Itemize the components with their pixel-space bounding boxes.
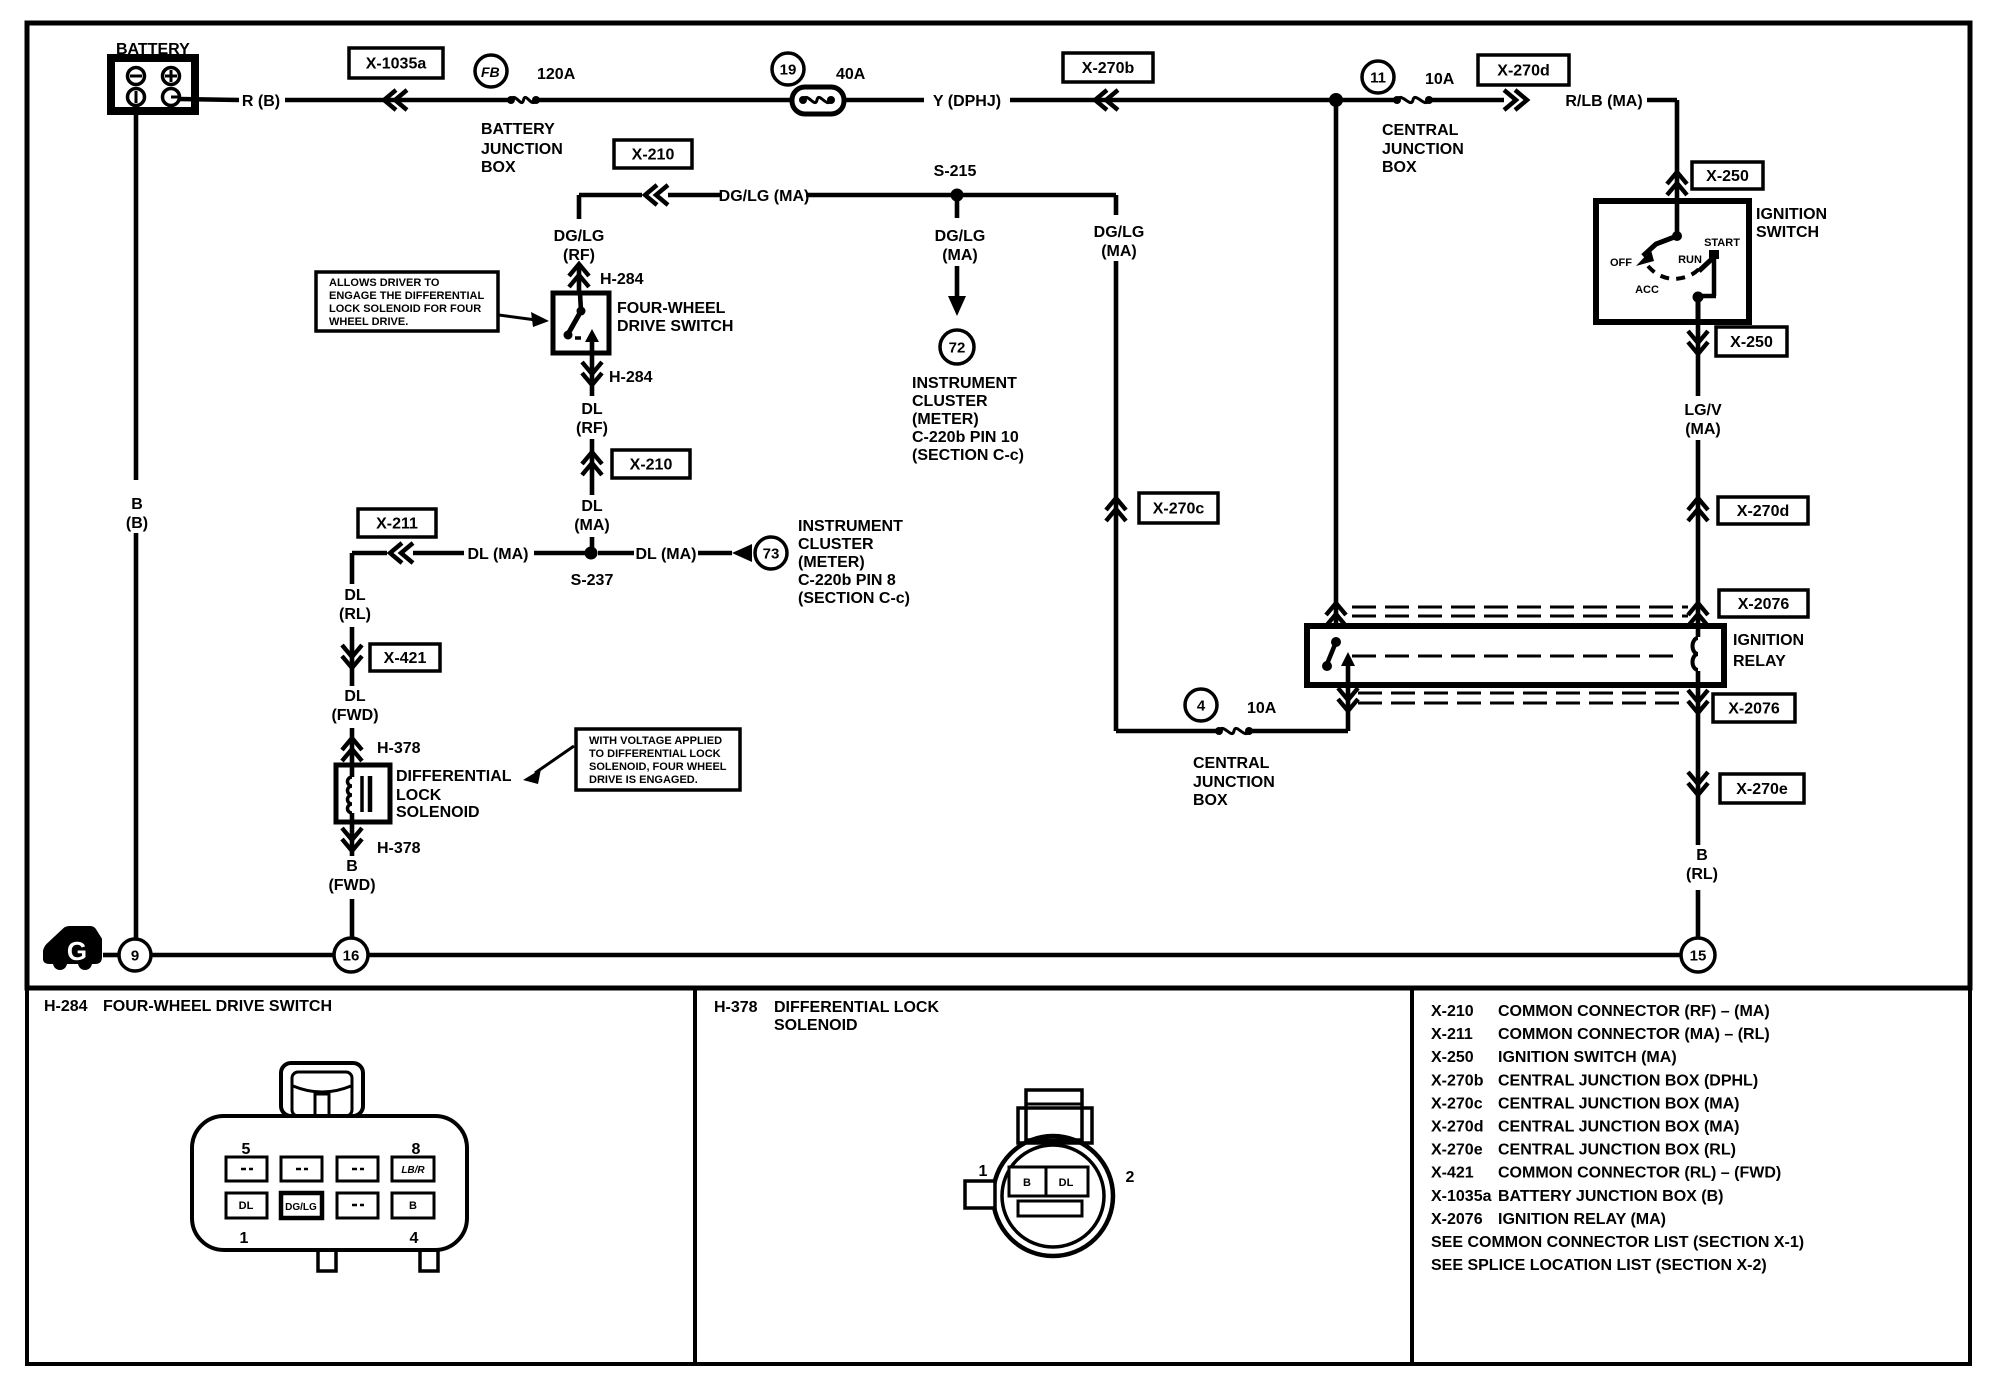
svg-text:S-237: S-237 [571,572,614,589]
svg-text:FB: FB [481,64,500,80]
svg-text:9: 9 [131,948,139,965]
svg-text:SOLENOID: SOLENOID [774,1017,858,1034]
svg-text:COMMON CONNECTOR (MA) – (RL): COMMON CONNECTOR (MA) – (RL) [1498,1026,1770,1043]
svg-text:(RL): (RL) [1686,866,1718,883]
svg-text:DL (MA): DL (MA) [635,546,696,563]
svg-text:X-1035a: X-1035a [1431,1188,1492,1205]
svg-text:C-220b PIN 8: C-220b PIN 8 [798,572,896,589]
svg-text:H-284: H-284 [609,369,653,386]
svg-text:BOX: BOX [481,159,516,176]
svg-text:(FWD): (FWD) [328,877,375,894]
svg-text:C-220b PIN 10: C-220b PIN 10 [912,429,1019,446]
svg-text:B: B [346,858,358,875]
svg-text:H-378: H-378 [377,840,421,857]
svg-text:2: 2 [1126,1169,1135,1186]
svg-text:IGNITION RELAY (MA): IGNITION RELAY (MA) [1498,1211,1666,1228]
svg-text:DG/LG: DG/LG [1094,224,1145,241]
svg-text:(RF): (RF) [576,420,608,437]
svg-text:DL (MA): DL (MA) [467,546,528,563]
svg-text:40A: 40A [836,66,866,83]
svg-text:(RL): (RL) [339,606,371,623]
svg-text:CENTRAL JUNCTION BOX (MA): CENTRAL JUNCTION BOX (MA) [1498,1095,1739,1112]
svg-text:(MA): (MA) [574,517,610,534]
svg-text:(METER): (METER) [798,554,865,571]
svg-text:LOCK: LOCK [396,787,442,804]
svg-text:LG/V: LG/V [1684,402,1722,419]
svg-text:(FWD): (FWD) [331,707,378,724]
svg-text:IGNITION: IGNITION [1756,206,1827,223]
svg-text:10A: 10A [1425,71,1455,88]
svg-text:SEE SPLICE LOCATION LIST (SECT: SEE SPLICE LOCATION LIST (SECTION X-2) [1431,1257,1767,1274]
svg-text:JUNCTION: JUNCTION [1193,774,1275,791]
svg-text:DL: DL [1059,1177,1074,1189]
svg-text:X-210: X-210 [1431,1003,1474,1020]
svg-text:8: 8 [412,1141,421,1158]
svg-text:DG/LG (MA): DG/LG (MA) [719,188,810,205]
svg-text:H-378: H-378 [714,999,758,1016]
svg-text:4: 4 [410,1230,419,1247]
svg-text:WITH VOLTAGE APPLIED: WITH VOLTAGE APPLIED [589,735,722,747]
svg-text:IGNITION SWITCH (MA): IGNITION SWITCH (MA) [1498,1049,1677,1066]
svg-text:R/LB (MA): R/LB (MA) [1565,93,1642,110]
svg-text:X-1035a: X-1035a [366,56,427,73]
svg-text:G: G [67,936,87,966]
svg-text:X-270b: X-270b [1431,1072,1484,1089]
svg-text:SEE COMMON CONNECTOR LIST (SEC: SEE COMMON CONNECTOR LIST (SECTION X-1) [1431,1234,1804,1251]
svg-text:DG/LG: DG/LG [935,228,986,245]
svg-text:ALLOWS DRIVER TO: ALLOWS DRIVER TO [329,277,440,289]
svg-text:TO DIFFERENTIAL LOCK: TO DIFFERENTIAL LOCK [589,748,721,760]
svg-text:15: 15 [1690,948,1707,965]
svg-text:INSTRUMENT: INSTRUMENT [798,518,903,535]
svg-text:FOUR-WHEEL: FOUR-WHEEL [617,300,726,317]
svg-text:H-284: H-284 [600,271,644,288]
svg-text:ACC: ACC [1635,284,1659,296]
svg-text:DL: DL [581,498,603,515]
svg-text:SOLENOID, FOUR WHEEL: SOLENOID, FOUR WHEEL [589,761,727,773]
svg-text:5: 5 [242,1141,251,1158]
svg-text:X-2076: X-2076 [1728,701,1780,718]
svg-text:BOX: BOX [1193,792,1228,809]
svg-text:R (B): R (B) [242,93,280,110]
svg-text:BOX: BOX [1382,159,1417,176]
svg-text:DG/LG: DG/LG [554,228,605,245]
svg-text:X-421: X-421 [384,650,427,667]
svg-text:X-270e: X-270e [1431,1142,1483,1159]
svg-text:X-270b: X-270b [1082,60,1135,77]
svg-text:BATTERY JUNCTION BOX (B): BATTERY JUNCTION BOX (B) [1498,1188,1723,1205]
svg-text:Y (DPHJ): Y (DPHJ) [933,93,1001,110]
svg-text:JUNCTION: JUNCTION [1382,141,1464,158]
svg-text:X-250: X-250 [1431,1049,1474,1066]
svg-text:LOCK SOLENOID FOR FOUR: LOCK SOLENOID FOR FOUR [329,303,481,315]
svg-text:(SECTION C-c): (SECTION C-c) [798,590,910,607]
svg-text:WHEEL DRIVE.: WHEEL DRIVE. [329,316,408,328]
svg-text:1: 1 [979,1163,988,1180]
svg-text:(SECTION C-c): (SECTION C-c) [912,447,1024,464]
svg-text:COMMON CONNECTOR (RF) – (MA): COMMON CONNECTOR (RF) – (MA) [1498,1003,1770,1020]
svg-text:11: 11 [1370,70,1386,87]
svg-text:CLUSTER: CLUSTER [798,536,874,553]
svg-text:X-270c: X-270c [1153,501,1205,518]
svg-text:CENTRAL JUNCTION BOX (RL): CENTRAL JUNCTION BOX (RL) [1498,1142,1736,1159]
svg-text:X-270e: X-270e [1736,781,1788,798]
svg-text:H-284: H-284 [44,998,88,1015]
svg-text:CENTRAL: CENTRAL [1193,755,1270,772]
svg-text:X-2076: X-2076 [1738,596,1790,613]
svg-text:10A: 10A [1247,700,1277,717]
svg-text:ENGAGE THE DIFFERENTIAL: ENGAGE THE DIFFERENTIAL [329,290,485,302]
svg-text:BATTERY: BATTERY [481,121,555,138]
svg-text:X-2076: X-2076 [1431,1211,1483,1228]
svg-text:(MA): (MA) [942,247,978,264]
svg-text:120A: 120A [537,66,576,83]
svg-text:(MA): (MA) [1101,243,1137,260]
svg-text:COMMON CONNECTOR (RL) – (FWD): COMMON CONNECTOR (RL) – (FWD) [1498,1165,1781,1182]
svg-text:START: START [1704,237,1740,249]
svg-text:1: 1 [240,1230,249,1247]
svg-text:72: 72 [949,340,966,357]
svg-text:(METER): (METER) [912,411,979,428]
svg-text:X-270d: X-270d [1431,1119,1483,1136]
svg-text:CENTRAL JUNCTION BOX (MA): CENTRAL JUNCTION BOX (MA) [1498,1119,1739,1136]
svg-text:X-250: X-250 [1730,334,1773,351]
svg-text:B: B [1023,1177,1031,1189]
svg-text:FOUR-WHEEL DRIVE SWITCH: FOUR-WHEEL DRIVE SWITCH [103,998,332,1015]
svg-text:B: B [131,496,143,513]
svg-text:CLUSTER: CLUSTER [912,393,988,410]
svg-text:DIFFERENTIAL: DIFFERENTIAL [396,768,512,785]
svg-text:DL: DL [581,401,603,418]
svg-text:B: B [1696,847,1708,864]
svg-text:INSTRUMENT: INSTRUMENT [912,375,1017,392]
svg-text:X-210: X-210 [632,147,675,164]
svg-text:S-215: S-215 [934,163,977,180]
svg-text:JUNCTION: JUNCTION [481,141,563,158]
svg-text:16: 16 [343,948,360,965]
svg-text:DRIVE IS ENGAGED.: DRIVE IS ENGAGED. [589,774,698,786]
svg-text:X-211: X-211 [376,516,418,533]
svg-text:X-270d: X-270d [1497,63,1549,80]
svg-text:X-210: X-210 [630,457,673,474]
svg-text:X-211: X-211 [1431,1026,1473,1043]
svg-text:DL: DL [344,587,366,604]
svg-text:SOLENOID: SOLENOID [396,804,480,821]
svg-text:IGNITION: IGNITION [1733,632,1804,649]
svg-text:X-250: X-250 [1706,168,1749,185]
svg-text:19: 19 [780,62,797,79]
svg-text:SWITCH: SWITCH [1756,224,1819,241]
svg-text:OFF: OFF [1610,257,1632,269]
svg-text:DRIVE SWITCH: DRIVE SWITCH [617,318,733,335]
svg-text:CENTRAL JUNCTION BOX (DPHL): CENTRAL JUNCTION BOX (DPHL) [1498,1072,1758,1089]
svg-text:DIFFERENTIAL LOCK: DIFFERENTIAL LOCK [774,999,939,1016]
svg-text:LB/R: LB/R [401,1165,425,1176]
svg-text:DL: DL [239,1200,254,1212]
svg-text:(B): (B) [126,515,148,532]
svg-text:H-378: H-378 [377,740,421,757]
svg-text:X-270d: X-270d [1737,503,1789,520]
svg-text:DG/LG: DG/LG [285,1202,317,1213]
svg-text:CENTRAL: CENTRAL [1382,122,1459,139]
svg-text:73: 73 [763,546,780,563]
svg-text:X-421: X-421 [1431,1165,1474,1182]
svg-text:X-270c: X-270c [1431,1095,1483,1112]
svg-text:DL: DL [344,688,366,705]
svg-text:4: 4 [1197,698,1206,715]
svg-text:(MA): (MA) [1685,421,1721,438]
svg-text:B: B [409,1200,417,1212]
svg-text:RUN: RUN [1678,254,1702,266]
svg-text:RELAY: RELAY [1733,653,1786,670]
